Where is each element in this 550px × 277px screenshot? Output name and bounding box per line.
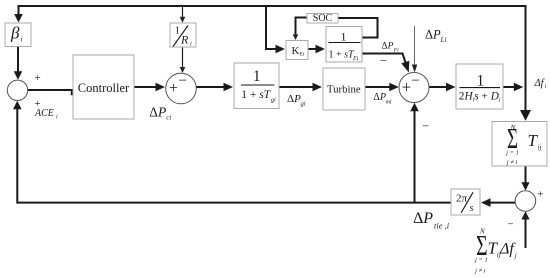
svg-text:1: 1 (253, 68, 261, 85)
svg-text:s: s (470, 203, 474, 214)
svg-text:SOC: SOC (313, 13, 333, 24)
svg-text:2His + Di: 2His + Di (459, 91, 501, 104)
svg-text:ΔP: ΔP (287, 93, 301, 105)
svg-text:−: − (380, 53, 387, 68)
svg-text:j = 1: j = 1 (474, 257, 488, 264)
svg-text:−: − (411, 73, 419, 89)
svg-text:ij: ij (538, 144, 542, 152)
svg-text:j ≠ i: j ≠ i (506, 159, 518, 166)
svg-text:K: K (292, 45, 300, 57)
svg-text:1 + sT: 1 + sT (241, 89, 271, 101)
svg-text:gi: gi (301, 101, 306, 108)
svg-text:mi: mi (386, 100, 392, 106)
svg-text:j ≠ i: j ≠ i (474, 268, 486, 275)
svg-text:ΔP: ΔP (413, 210, 433, 227)
svg-text:Δf: Δf (499, 241, 516, 258)
svg-text:+: + (34, 72, 40, 84)
svg-text:Fi: Fi (393, 48, 399, 54)
svg-text:Turbine: Turbine (327, 84, 361, 96)
svg-text:−: − (178, 73, 186, 89)
svg-text:j = 1: j = 1 (505, 150, 519, 157)
svg-text:+: + (537, 189, 543, 201)
svg-text:tie ,i: tie ,i (434, 221, 450, 231)
svg-text:1: 1 (341, 30, 347, 44)
svg-text:−: − (422, 119, 429, 133)
svg-text:gi: gi (271, 96, 276, 103)
svg-text:Ei: Ei (300, 52, 305, 58)
svg-text:i: i (190, 41, 192, 48)
svg-text:ΔP: ΔP (382, 41, 394, 51)
svg-text:ΔP: ΔP (149, 105, 166, 120)
svg-text:i: i (56, 115, 58, 121)
svg-text:1: 1 (175, 25, 181, 37)
svg-text:ΔP: ΔP (425, 28, 441, 42)
svg-text:1 + sT: 1 + sT (329, 50, 356, 61)
svg-text:1: 1 (477, 73, 485, 90)
svg-text:−: − (507, 219, 513, 231)
svg-text:R: R (180, 33, 189, 47)
svg-text:ci: ci (166, 114, 171, 122)
svg-text:β: β (10, 24, 20, 43)
svg-text:i: i (21, 36, 23, 44)
svg-text:j: j (514, 252, 517, 260)
svg-text:+: + (402, 78, 412, 97)
svg-text:Li: Li (440, 36, 447, 44)
svg-text:Controller: Controller (78, 81, 130, 95)
svg-text:Ei: Ei (352, 56, 359, 62)
svg-text:2π: 2π (456, 193, 468, 205)
svg-text:i: i (545, 84, 547, 90)
svg-text:ACE: ACE (34, 108, 54, 119)
svg-text:+: + (169, 80, 178, 97)
svg-text:ΔP: ΔP (373, 92, 386, 103)
